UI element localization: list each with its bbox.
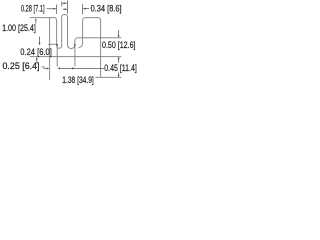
- arrowheads: [54, 8, 57, 10]
- left extension line for slot bottom (0.24): [48, 43, 56, 45]
- svg-text:0.34 [8.6]: 0.34 [8.6]: [91, 3, 122, 13]
- svg-text:0.25 [6.4]: 0.25 [6.4]: [3, 61, 40, 71]
- slot A (left U slot): [57, 15, 68, 49]
- 0.50 dim stems: [118, 30, 120, 35]
- ext tick x61.8 top: [61, 2, 63, 7]
- svg-text:0.24 [6.0]: 0.24 [6.0]: [20, 47, 52, 57]
- svg-text:0.28 [7.1]: 0.28 [7.1]: [21, 4, 45, 14]
- finger right edge extension: [67, 1, 69, 14]
- ext tick x56.6 top: [56, 5, 58, 14]
- top edge of left wall with extension to left: [30, 18, 57, 21]
- legs / stems below base: [56, 46, 58, 67]
- 1.00 dim stems: [39, 37, 41, 43]
- arrow line y9.2: [63, 8, 65, 10]
- 0.45 dim stems: [118, 73, 120, 76]
- left outer edge: [49, 18, 51, 80]
- 1.38 dim line pieces: [44, 68, 47, 70]
- svg-text:1.38 [34.9]: 1.38 [34.9]: [62, 75, 94, 85]
- arrow line y3.2: [64, 2, 67, 4]
- svg-text:0.50 [12.6]: 0.50 [12.6]: [102, 40, 136, 50]
- 0.28 arrow line: [47, 8, 54, 10]
- 0.25 leader dash: [42, 66, 45, 68]
- ext tick x82.6 top: [82, 4, 84, 15]
- base line with right extension: [30, 56, 121, 58]
- svg-text:0.45 [11.4]: 0.45 [11.4]: [104, 63, 137, 73]
- 0.34 arrow line: [85, 8, 89, 10]
- right block: [83, 18, 101, 57]
- svg-text:1.00 [25.4]: 1.00 [25.4]: [2, 23, 36, 33]
- slot B (right U slot) and ledge going right: [68, 38, 122, 49]
- bottom extension line (0.45 bottom reference): [95, 76, 121, 78]
